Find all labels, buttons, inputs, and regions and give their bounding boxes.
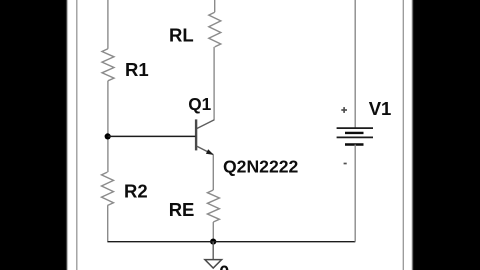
wire V1 top lead xyxy=(354,0,356,128)
wire ground stem xyxy=(212,242,214,260)
node ground junction dot xyxy=(210,239,216,245)
transistor Q1 emitter arrow xyxy=(206,149,214,155)
wire R2 bottom to bottom rail xyxy=(107,206,109,243)
wire RL top lead xyxy=(214,0,216,12)
node base junction dot xyxy=(105,133,111,139)
svg-text:0: 0 xyxy=(219,262,229,270)
resistor R2 xyxy=(102,172,114,205)
transistor Q1 base wire xyxy=(108,135,196,137)
svg-text:R2: R2 xyxy=(124,181,148,202)
wire bottom rail xyxy=(108,241,356,243)
wire RL bottom to collector corner xyxy=(213,47,215,121)
transistor Q1 emitter lead xyxy=(197,146,213,154)
svg-text:RL: RL xyxy=(169,24,194,45)
battery V1 long plate (top) xyxy=(337,127,373,129)
frame border left xyxy=(76,0,78,270)
black pillarbox right xyxy=(412,0,480,270)
svg-text:RE: RE xyxy=(169,199,195,220)
wire RE bottom to ground node xyxy=(212,222,214,242)
wire R1 bottom to R2 top xyxy=(107,81,109,172)
svg-text:V1: V1 xyxy=(369,98,392,119)
battery V1 short plate (upper) xyxy=(345,132,364,134)
wire V1 bottom lead xyxy=(354,145,356,242)
wire emitter to RE top xyxy=(212,155,214,190)
ground symbol xyxy=(205,260,222,268)
resistor RL xyxy=(209,12,221,47)
svg-text:Q2N2222: Q2N2222 xyxy=(223,157,299,177)
svg-text:Q1: Q1 xyxy=(188,94,211,114)
battery V1 short plate (lower) xyxy=(345,143,364,145)
label + (positive terminal) xyxy=(341,107,347,113)
resistor RE xyxy=(207,190,219,222)
wire left rail top lead of R1 xyxy=(107,0,109,49)
black pillarbox left xyxy=(0,0,67,270)
transistor Q1 base bar xyxy=(195,119,197,150)
resistor R1 xyxy=(102,49,114,81)
transistor Q1 collector lead xyxy=(197,120,214,129)
frame border right xyxy=(402,0,404,270)
svg-text:R1: R1 xyxy=(125,59,149,80)
label - (negative terminal) xyxy=(344,163,347,165)
battery V1 long plate (bottom) xyxy=(337,136,373,138)
